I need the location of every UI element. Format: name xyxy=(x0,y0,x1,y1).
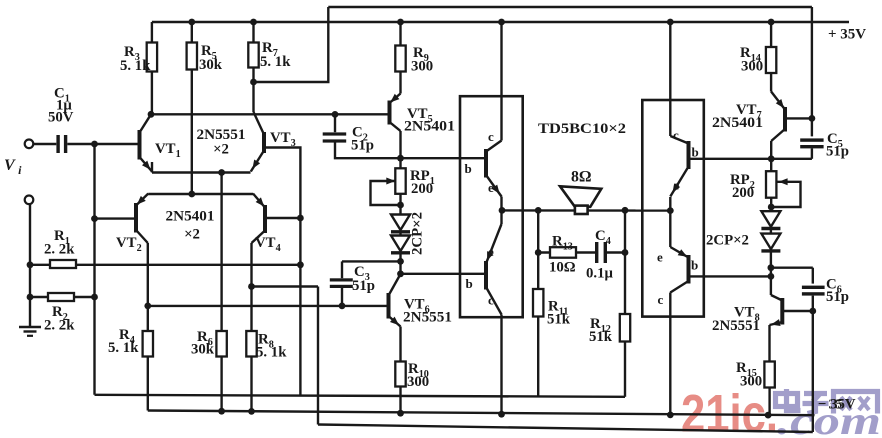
svg-text:5. 1k: 5. 1k xyxy=(120,58,151,74)
svg-text:e: e xyxy=(674,178,680,193)
svg-text:c: c xyxy=(658,292,664,307)
svg-text:2N5551: 2N5551 xyxy=(712,318,760,334)
svg-text:b: b xyxy=(466,276,473,291)
svg-text:300: 300 xyxy=(407,374,429,390)
svg-text:51k: 51k xyxy=(589,329,613,345)
svg-text:50V: 50V xyxy=(48,110,74,126)
svg-text:b: b xyxy=(691,258,698,273)
svg-text:30k: 30k xyxy=(199,57,223,73)
svg-text:5. 1k: 5. 1k xyxy=(260,54,291,70)
svg-text:+ 35V: + 35V xyxy=(828,27,866,43)
svg-text:2N5551: 2N5551 xyxy=(403,310,452,326)
svg-text:300: 300 xyxy=(411,59,433,75)
svg-text:b: b xyxy=(692,145,699,160)
svg-text:− 35V: − 35V xyxy=(818,397,856,413)
svg-text:e: e xyxy=(488,244,494,259)
svg-text:c: c xyxy=(488,129,494,144)
svg-text:51p: 51p xyxy=(826,144,849,160)
svg-text:30k: 30k xyxy=(191,342,215,358)
svg-text:200: 200 xyxy=(732,185,754,201)
svg-text:10Ω: 10Ω xyxy=(549,260,576,276)
svg-text:51p: 51p xyxy=(351,138,374,154)
svg-text:2N5401: 2N5401 xyxy=(712,115,763,131)
svg-text:c: c xyxy=(673,128,679,143)
svg-text:2. 2k: 2. 2k xyxy=(44,242,75,258)
svg-text:2. 2k: 2. 2k xyxy=(44,318,75,334)
svg-text:2N5401: 2N5401 xyxy=(166,209,215,225)
svg-text:5. 1k: 5. 1k xyxy=(256,345,287,361)
svg-text:×2: ×2 xyxy=(184,227,200,243)
svg-text:2N5401: 2N5401 xyxy=(404,119,455,135)
svg-text:5. 1k: 5. 1k xyxy=(108,340,139,356)
svg-text:TD5BC10×2: TD5BC10×2 xyxy=(538,121,626,137)
svg-text:200: 200 xyxy=(411,181,433,197)
svg-text:300: 300 xyxy=(740,374,762,390)
svg-text:b: b xyxy=(465,161,472,176)
svg-text:8Ω: 8Ω xyxy=(571,169,592,186)
svg-text:2CP×2: 2CP×2 xyxy=(706,233,749,249)
svg-text:51k: 51k xyxy=(547,312,571,328)
svg-text:0.1μ: 0.1μ xyxy=(586,266,613,282)
svg-text:51p: 51p xyxy=(826,289,849,305)
svg-text:300: 300 xyxy=(741,59,763,75)
svg-text:c: c xyxy=(488,293,494,308)
svg-text:×2: ×2 xyxy=(213,142,229,158)
svg-text:e: e xyxy=(657,250,663,265)
svg-text:2CP×2: 2CP×2 xyxy=(410,212,426,255)
svg-text:e: e xyxy=(488,180,494,195)
svg-text:51p: 51p xyxy=(352,278,375,294)
